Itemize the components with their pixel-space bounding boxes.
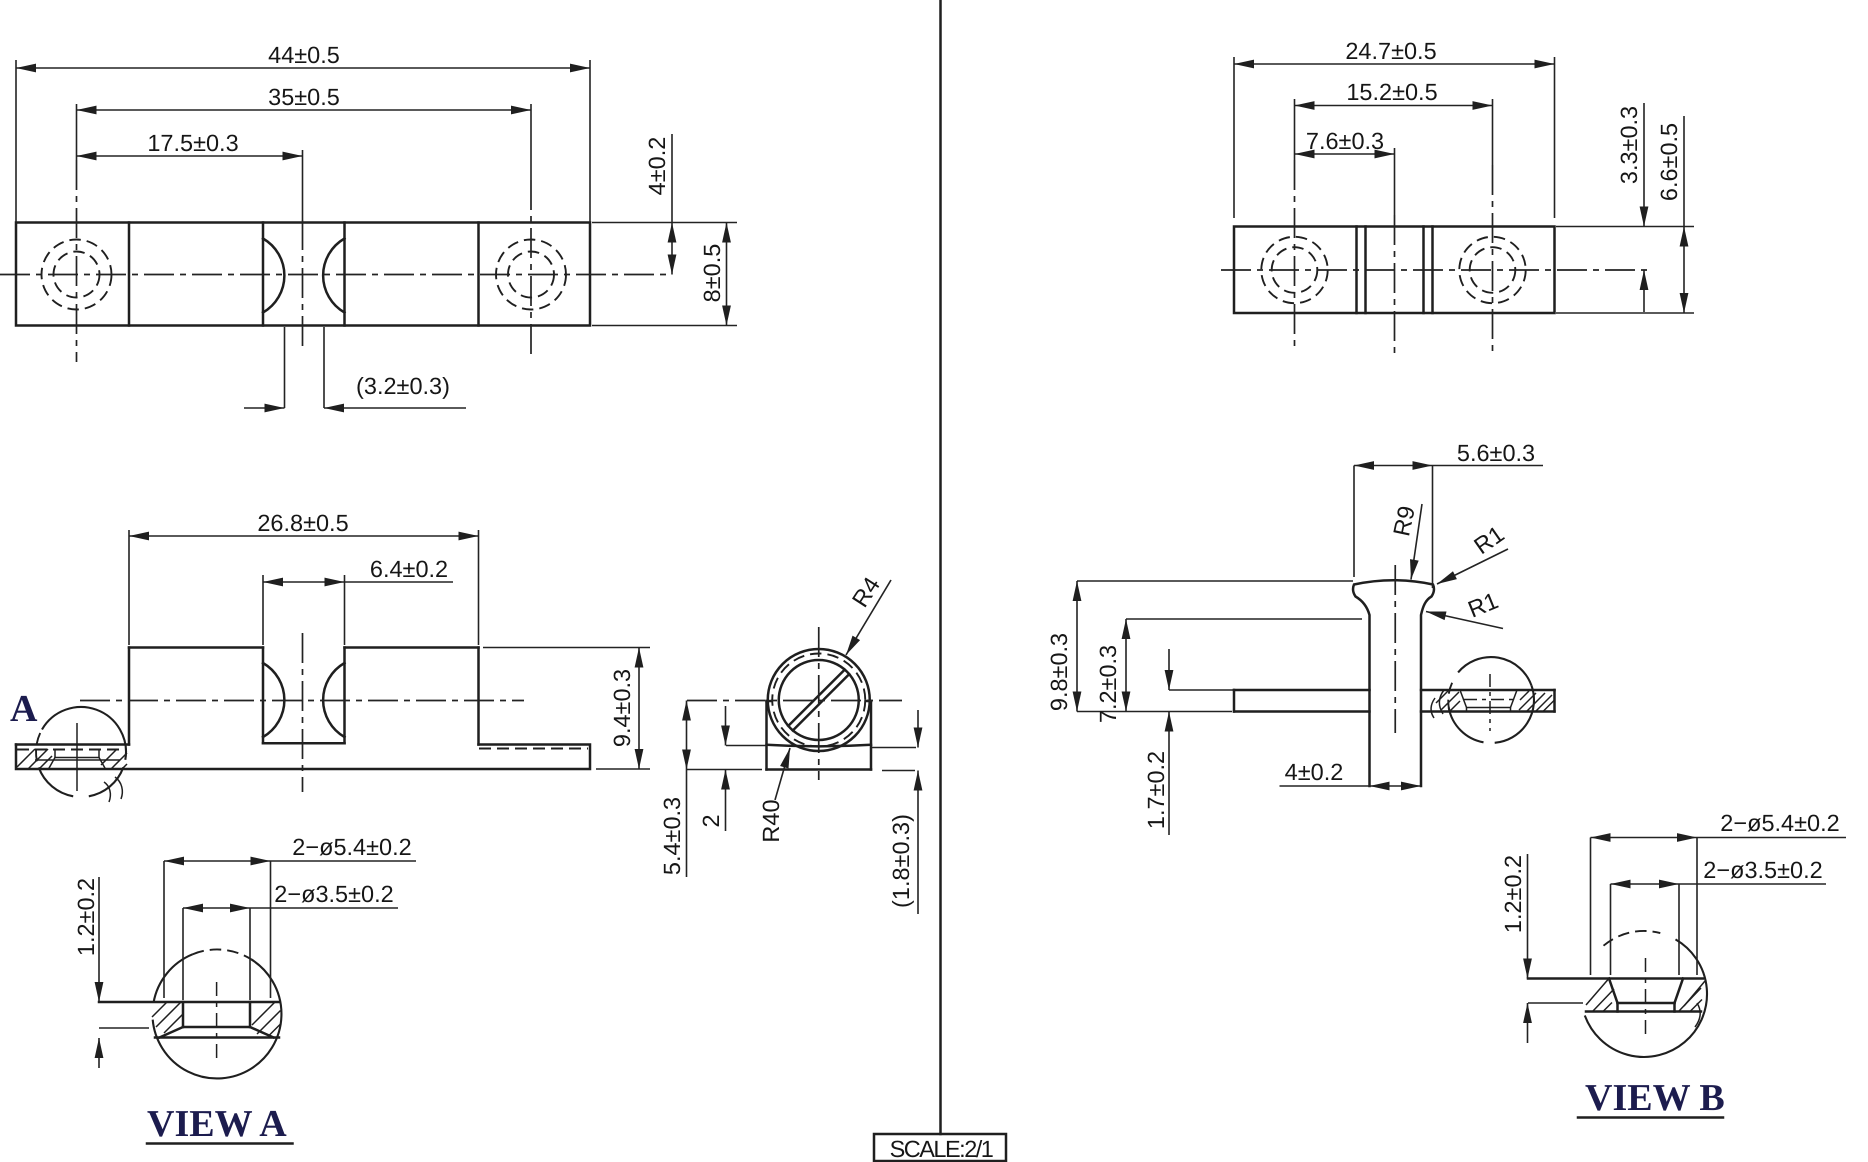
countersink shoulder xyxy=(1618,1002,1675,1005)
segment line xyxy=(128,223,131,326)
svg-text:26.8±0.5: 26.8±0.5 xyxy=(257,510,348,536)
horizontal centerline xyxy=(1221,269,1653,271)
svg-text:5.4±0.3: 5.4±0.3 xyxy=(659,797,685,875)
flange top surface xyxy=(99,1001,279,1004)
dimension (1.8±0.3) xyxy=(882,770,915,772)
hole centerline cross xyxy=(1489,674,1491,731)
detail circle xyxy=(1585,939,1707,1057)
countersink shoulder extension xyxy=(1528,1002,1583,1004)
seat extension right xyxy=(872,747,916,749)
dimension 1.7±0.2 xyxy=(1169,689,1234,691)
seat extension left xyxy=(726,745,767,747)
seat R40 xyxy=(767,745,872,747)
flange top left xyxy=(16,743,129,746)
ø5.4 extension lines xyxy=(163,861,165,998)
countersink shoulder extension xyxy=(99,1027,149,1029)
svg-text:6.4±0.2: 6.4±0.2 xyxy=(370,556,448,582)
flange top surface xyxy=(1528,977,1703,980)
svg-text:5.6±0.3: 5.6±0.3 xyxy=(1457,440,1535,466)
detail circle A xyxy=(42,707,126,760)
dimension 24.7±0.5 xyxy=(1233,57,1235,218)
body outline xyxy=(1234,227,1555,314)
hole left centerline xyxy=(76,104,78,160)
hole right inner xyxy=(1470,247,1516,293)
svg-text:24.7±0.5: 24.7±0.5 xyxy=(1345,38,1436,64)
countersink hole section xyxy=(54,750,56,758)
hole left inner xyxy=(1272,247,1318,293)
dimension 35±0.5 xyxy=(77,109,532,111)
slot wall left xyxy=(262,648,265,744)
housing right wall xyxy=(870,701,873,770)
hole right centerline xyxy=(1492,99,1494,165)
pin outline xyxy=(1353,580,1434,786)
hatch right xyxy=(252,1002,275,1025)
dimension 1.2±0.2 xyxy=(1527,854,1529,979)
dimension 5.6±0.3 xyxy=(1353,466,1355,578)
dimension 2-ø3.5±0.2 xyxy=(1611,883,1827,885)
vertical centerline xyxy=(302,633,304,792)
hole left outer xyxy=(1261,237,1327,303)
body outline top view xyxy=(16,223,590,326)
hole centerline cross xyxy=(76,723,78,791)
ø3.5 extension lines xyxy=(1610,884,1612,975)
countersink cone xyxy=(1609,979,1618,1004)
hole ø3.5 walls xyxy=(1616,1003,1619,1012)
slot centerline xyxy=(1394,148,1396,215)
svg-text:9.4±0.3: 9.4±0.3 xyxy=(609,669,635,747)
segment line xyxy=(477,223,480,326)
hidden line left flange xyxy=(17,749,127,751)
block left wall xyxy=(128,648,131,745)
block top right xyxy=(345,646,479,649)
svg-text:17.5±0.3: 17.5±0.3 xyxy=(147,130,238,156)
divider line xyxy=(939,0,942,1134)
svg-text:1.2±0.2: 1.2±0.2 xyxy=(1500,855,1526,933)
break mark xyxy=(1695,1003,1700,1027)
housing bottom xyxy=(767,768,872,771)
break marks xyxy=(1439,690,1444,714)
svg-text:8±0.5: 8±0.5 xyxy=(699,244,725,303)
ball cross lines xyxy=(793,674,849,730)
dimension 7.6±0.3 xyxy=(1295,153,1395,155)
slot wall right xyxy=(343,648,346,744)
svg-text:1.2±0.2: 1.2±0.2 xyxy=(73,878,99,956)
dimension 8±0.5 xyxy=(592,222,737,224)
base plate outline xyxy=(16,745,590,770)
leader R1 upper xyxy=(1437,549,1508,584)
svg-text:35±0.5: 35±0.5 xyxy=(268,84,340,110)
vertical centerline xyxy=(818,627,820,780)
svg-text:44±0.5: 44±0.5 xyxy=(268,42,340,68)
hidden line right flange xyxy=(479,748,588,750)
hole right inner xyxy=(508,252,554,298)
break mark xyxy=(104,782,110,802)
svg-text:15.2±0.5: 15.2±0.5 xyxy=(1346,79,1437,105)
detail circle B in place xyxy=(1458,657,1531,685)
ball arc right side view xyxy=(323,663,344,737)
hole centerline xyxy=(1645,958,1647,1040)
flange section hatch xyxy=(17,749,35,767)
svg-text:VIEW B: VIEW B xyxy=(1585,1077,1725,1119)
svg-text:2−ø3.5±0.2: 2−ø3.5±0.2 xyxy=(274,881,393,907)
slot wall right xyxy=(343,223,346,326)
scale box xyxy=(874,1134,1006,1161)
section hatch xyxy=(1441,692,1459,710)
hole centerline xyxy=(216,982,218,1062)
svg-text:(1.8±0.3): (1.8±0.3) xyxy=(888,814,914,908)
svg-text:9.8±0.3: 9.8±0.3 xyxy=(1046,633,1072,711)
horizontal centerline xyxy=(0,274,672,276)
dimension (3.2±0.3) xyxy=(284,327,286,408)
ball inner circle xyxy=(779,660,859,740)
hole right outer xyxy=(1459,237,1525,303)
hatch left xyxy=(156,1002,181,1027)
hole ø3.5 walls xyxy=(182,1002,185,1027)
dimension 4±0.2 xyxy=(671,134,673,275)
svg-text:2−ø5.4±0.2: 2−ø5.4±0.2 xyxy=(292,834,411,860)
dimension 2-ø3.5±0.2 xyxy=(183,907,398,909)
hole right centerline xyxy=(530,104,532,180)
dimension 15.2±0.5 xyxy=(1295,105,1493,107)
dimension 2-ø5.4±0.2 xyxy=(1591,837,1847,839)
svg-text:6.6±0.5: 6.6±0.5 xyxy=(1656,123,1682,201)
ball arc left xyxy=(263,239,284,313)
dimension 2 xyxy=(725,706,727,746)
horizontal centerline xyxy=(687,700,902,702)
pin centerline xyxy=(1394,565,1396,733)
svg-text:2−ø5.4±0.2: 2−ø5.4±0.2 xyxy=(1720,810,1839,836)
hole left centerline xyxy=(1294,99,1296,160)
leader R40 xyxy=(775,748,790,800)
dimension 9.4±0.3 xyxy=(483,647,650,649)
slot centerline xyxy=(302,150,304,220)
svg-text:7.2±0.3: 7.2±0.3 xyxy=(1095,645,1121,723)
extension lines right xyxy=(1556,226,1694,228)
dimension 26.8±0.5 xyxy=(128,530,130,645)
svg-text:SCALE:2/1: SCALE:2/1 xyxy=(890,1136,993,1162)
plate outline xyxy=(1234,689,1370,692)
dimension 44±0.5 xyxy=(15,60,17,222)
dimension 2-ø5.4±0.2 xyxy=(164,860,416,862)
section countersink xyxy=(1460,690,1467,708)
svg-text:2: 2 xyxy=(698,814,724,827)
dimension 5.4±0.3 xyxy=(687,769,762,771)
ball arc left side view xyxy=(263,663,284,737)
hole right outer xyxy=(496,240,566,310)
hole left outer xyxy=(42,240,112,310)
hole left inner xyxy=(54,252,100,298)
slot lines xyxy=(1355,227,1358,314)
ball arc right xyxy=(323,239,344,313)
housing left wall xyxy=(765,701,768,770)
leader R1 lower xyxy=(1426,612,1503,629)
svg-text:A: A xyxy=(10,688,38,730)
svg-text:1.7±0.2: 1.7±0.2 xyxy=(1143,751,1169,829)
svg-text:4±0.2: 4±0.2 xyxy=(1285,759,1344,785)
detail circle xyxy=(153,959,282,1078)
svg-text:2−ø3.5±0.2: 2−ø3.5±0.2 xyxy=(1703,857,1822,883)
svg-text:3.3±0.3: 3.3±0.3 xyxy=(1616,106,1642,184)
dimension 6.6±0.5 xyxy=(1683,116,1685,313)
ball dashed circle xyxy=(772,654,865,747)
ball outer circle xyxy=(768,649,870,751)
dimension 1.2±0.2 xyxy=(98,877,100,1002)
dimension 4±0.2 xyxy=(1280,785,1422,787)
block right wall xyxy=(477,648,480,745)
svg-text:4±0.2: 4±0.2 xyxy=(644,137,670,196)
svg-text:VIEW A: VIEW A xyxy=(147,1103,287,1145)
leader R9 xyxy=(1411,504,1422,580)
flange bottom surface xyxy=(1586,1010,1701,1013)
housing top stubs xyxy=(767,700,772,703)
leader R4 xyxy=(846,580,891,655)
dimension 17.5±0.3 xyxy=(77,155,303,157)
block top left xyxy=(129,646,263,649)
dimension 3.3±0.3 xyxy=(1643,103,1645,227)
svg-text:R40: R40 xyxy=(758,799,784,842)
dimension 7.2±0.3 xyxy=(1126,618,1362,620)
countersink shoulder xyxy=(183,1026,250,1029)
ø3.5 extension lines xyxy=(182,908,184,1000)
svg-text:(3.2±0.3): (3.2±0.3) xyxy=(356,373,450,399)
ø5.4 extension lines xyxy=(1590,838,1592,976)
countersink cone xyxy=(160,1027,184,1038)
hatch right xyxy=(1684,981,1705,1006)
dimension 9.8±0.3 xyxy=(1077,580,1353,582)
hatch left xyxy=(1586,980,1608,1006)
slot wall left xyxy=(262,223,265,326)
horizontal centerline xyxy=(80,700,524,702)
dimension 6.4±0.2 xyxy=(262,575,264,645)
flange bottom surface xyxy=(155,1036,279,1039)
slot bottom xyxy=(263,742,345,745)
svg-text:7.6±0.3: 7.6±0.3 xyxy=(1306,128,1384,154)
